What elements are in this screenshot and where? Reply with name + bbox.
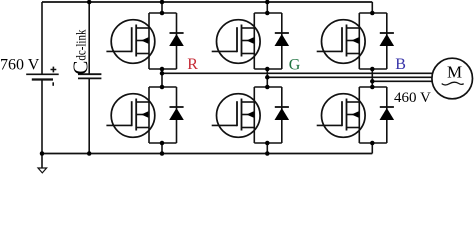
wire: top DC+ rail [42,1,372,3]
wire: leg R bottom lead [161,143,163,154]
wire: capacitor top lead [88,2,90,74]
wire: leg R midpoint lead [161,69,163,87]
MOSFET Q4 + diode D4 (phase G low side) [212,87,289,143]
node: Q6 cell top [370,85,375,90]
wire: leg G bottom lead [266,143,268,154]
capacitor Cdc-link top plate [78,73,101,75]
node: bottom rail / leg G [265,151,270,156]
wire: battery positive lead [41,2,43,74]
svg-text:760 V: 760 V [0,57,40,74]
svg-text:Cdc-link: Cdc-link [68,30,92,75]
wire: leg G top lead [266,2,268,13]
node: bottom rail / capacitor [87,151,92,156]
MOSFET Q2 + diode D2 (phase R low side) [106,87,183,143]
node: Q2 cell top [160,85,165,90]
node: Q4 cell bottom [265,141,270,146]
motor M circle [432,58,473,99]
wire: leg B bottom lead [371,143,373,154]
node: Q1 cell top [160,11,165,16]
battery V1 negative plate [32,78,53,80]
wire: phase B line to motor [372,80,432,82]
wire: battery negative lead [41,80,43,154]
node: phase B tap [370,79,375,84]
svg-text:M: M [447,63,462,82]
node: bottom rail / ground [40,151,45,156]
motor sine wave [442,82,464,85]
node: Q1 cell bottom [160,67,165,72]
node: Q3 cell top [265,11,270,16]
node: phase G tap [265,75,270,80]
svg-text:G: G [289,56,301,73]
node: Q3 cell bottom [265,67,270,72]
wire: leg R top lead [161,2,163,13]
battery plus sign [51,67,57,73]
node: bottom rail / leg R [160,151,165,156]
ground [38,154,47,173]
wire: phase R line to motor [162,72,432,74]
node: top rail / leg R [160,0,165,4]
battery minus sign (rotated) [52,82,54,86]
wire: bottom DC- rail [42,153,372,155]
battery V1 positive plate [26,73,59,75]
wire: phase G line to motor [267,76,432,78]
wire: leg G midpoint lead [266,69,268,87]
node: Q2 cell bottom [160,141,165,146]
svg-text:B: B [395,56,406,73]
node: top rail / leg G [265,0,270,4]
wire: leg B midpoint lead [371,69,373,87]
MOSFET Q1 + diode D1 (phase R high side) [106,13,183,69]
node: phase R tap [160,71,165,76]
MOSFET Q6 + diode D6 (phase B low side) [317,87,394,143]
node: top rail / capacitor [87,0,92,4]
MOSFET Q3 + diode D3 (phase G high side) [212,13,289,69]
node: Q6 cell bottom [370,141,375,146]
capacitor Cdc-link bottom plate [78,77,101,79]
node: Q5 cell top [370,11,375,16]
svg-text:R: R [187,56,198,73]
node: Q4 cell top [265,85,270,90]
wire: leg B top lead [371,2,373,13]
node: Q5 cell bottom [370,67,375,72]
MOSFET Q5 + diode D5 (phase B high side) [317,13,394,69]
wire: capacitor bottom lead [88,78,90,153]
svg-text:460 V: 460 V [394,90,431,106]
